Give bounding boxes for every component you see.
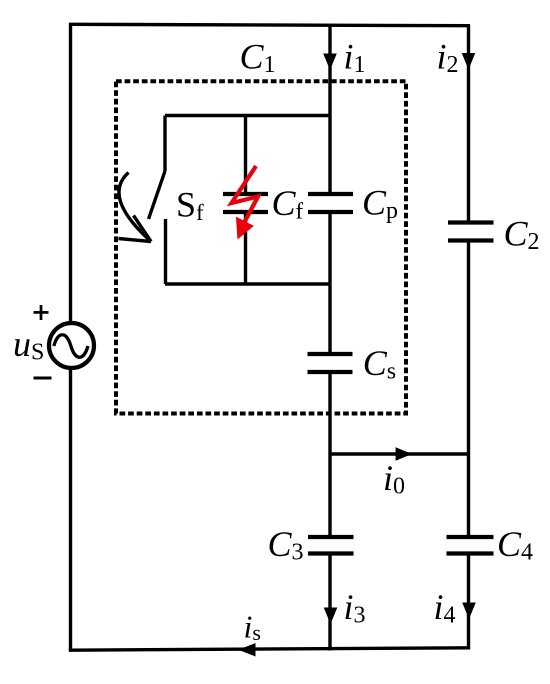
wire: bottom rail: [69, 648, 470, 650]
capacitor C4: [447, 537, 494, 554]
polarity plus: [34, 305, 49, 320]
svg-text:uS: uS: [13, 324, 44, 366]
current arrow i1: [323, 54, 337, 71]
current arrow i3: [324, 608, 338, 625]
svg-text:C4: C4: [497, 524, 533, 566]
wire: center branch bottom segment: [328, 554, 331, 651]
wire: center branch lower segment: [328, 372, 331, 537]
polarity minus: [34, 377, 52, 380]
fault arrow (red lightning): [232, 166, 259, 239]
capacitor Cf: [223, 194, 268, 212]
wire: Cf branch upper segment: [244, 116, 247, 195]
switch Sf: [149, 116, 166, 285]
capacitor C3: [308, 537, 354, 554]
svg-text:C1: C1: [240, 37, 276, 79]
capacitor Cp: [308, 194, 353, 212]
capacitor C2: [448, 223, 494, 241]
wire: left rail upper segment: [69, 23, 72, 323]
wire: Cf branch lower segment: [244, 212, 247, 284]
svg-text:Cs: Cs: [363, 343, 396, 385]
wire: right rail middle segment: [467, 241, 470, 538]
svg-text:i0: i0: [383, 458, 405, 500]
wire: right rail top segment: [467, 25, 470, 223]
current arrow i0: [396, 447, 412, 460]
wire: inner cell bottom rail: [165, 282, 330, 285]
current arrow i2: [462, 53, 476, 70]
voltage source uS: [49, 323, 94, 368]
wire: center branch top segment: [328, 25, 331, 194]
svg-text:Sf: Sf: [176, 185, 204, 226]
wire: center branch middle segment: [328, 212, 331, 354]
wire: right rail bottom segment: [467, 554, 470, 650]
svg-text:i4: i4: [434, 587, 456, 629]
current arrow is: [238, 643, 255, 657]
wire: top rail: [69, 24, 470, 25]
wire: i0 link: [330, 452, 469, 455]
dashed boundary box C1: [116, 81, 406, 413]
switch actuation curved arrow: [119, 173, 152, 242]
svg-text:Cf: Cf: [272, 183, 304, 224]
svg-text:C2: C2: [504, 214, 540, 256]
wire: inner cell top rail: [165, 114, 330, 117]
capacitor Cs: [308, 354, 353, 372]
svg-text:i3: i3: [344, 587, 366, 629]
svg-text:C3: C3: [268, 524, 304, 566]
svg-text:i1: i1: [344, 37, 366, 79]
svg-text:Cp: Cp: [362, 182, 398, 224]
svg-text:is: is: [244, 609, 261, 646]
current arrow i4: [462, 603, 476, 620]
svg-text:i2: i2: [437, 37, 459, 79]
wire: left rail lower segment: [69, 369, 72, 652]
